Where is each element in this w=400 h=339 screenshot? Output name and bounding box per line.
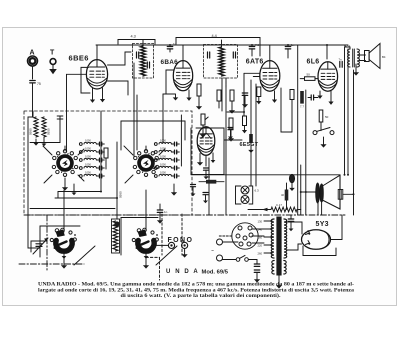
svg-text:6BE6: 6BE6: [69, 54, 89, 63]
band switch enclosure: [24, 111, 192, 215]
power transformer T3 core: [276, 217, 281, 276]
ground below C6b: [143, 258, 149, 269]
label FONO: [168, 237, 194, 244]
ground below S2: [320, 137, 326, 148]
tone switch S2: [313, 128, 334, 135]
svg-text:7.7: 7.7: [300, 105, 304, 109]
wire V1 grid to switch: [67, 74, 87, 152]
svg-text:50: 50: [307, 73, 311, 77]
antenna terminal A: [28, 50, 38, 80]
svg-text:6AT6: 6AT6: [246, 58, 264, 65]
mains switch S3: [223, 255, 258, 261]
wire speaker drop pair: [345, 47, 349, 175]
trimmer bank 2: [172, 142, 179, 178]
capacitor C16 electrolytic: [289, 174, 295, 191]
fono jack J2: [182, 242, 188, 251]
svg-text:130: 130: [258, 219, 263, 223]
box around S1b: [121, 121, 185, 150]
rectifier tube V6 5Y3: [302, 221, 331, 249]
svg-text:1000: 1000: [85, 163, 91, 167]
svg-text:T: T: [50, 50, 55, 57]
resistor R10 divider: [248, 203, 301, 212]
resistor R12: [281, 183, 288, 210]
tube V2 6BA6: [161, 59, 193, 91]
wire S1b contacts: [124, 146, 165, 183]
wire bank1 bottom: [72, 132, 101, 195]
speaker LS1: [365, 44, 386, 69]
resistor R16 dark: [300, 91, 304, 109]
antenna coils L1a L1b: [29, 117, 51, 137]
chassis line: [24, 214, 345, 216]
capacitor C4 rail: [285, 43, 294, 58]
band switch S1b: [133, 150, 159, 177]
IF T1 bracket 4.3: [118, 35, 155, 45]
wire bus y208: [30, 208, 115, 210]
wire V2 grid loop: [166, 70, 176, 94]
IF transformer T1 windings: [134, 40, 150, 78]
wire lamp bracket: [236, 186, 260, 204]
field coil: [316, 183, 324, 203]
ground below C6a: [61, 258, 67, 269]
coil bank L7-L11: [154, 139, 174, 178]
wire gang risers: [64, 190, 146, 232]
capacitor C18: [203, 193, 208, 204]
earth terminal T: [49, 50, 57, 75]
tuning gang C6b: [132, 228, 158, 259]
capacitor C2 rail: [167, 42, 176, 52]
svg-text:Mod. 69/5: Mod. 69/5: [202, 270, 229, 276]
capacitor C10 tone: [319, 110, 328, 131]
gang link diagonals: [74, 246, 177, 265]
box around tuning eye: [191, 128, 224, 175]
wire 6L6 plate top: [326, 45, 328, 59]
mains plug: [211, 239, 238, 261]
svg-text:1000: 1000: [160, 163, 166, 167]
wire field coil leads: [318, 202, 322, 215]
svg-text:1000: 1000: [85, 155, 91, 159]
output transformer T4: [345, 44, 359, 67]
wire speaker top bus: [191, 174, 349, 176]
wire output verticals: [298, 45, 307, 215]
svg-text:1000: 1000: [85, 171, 91, 175]
chassis dashed tail: [146, 257, 160, 280]
tube V1 6BE6: [69, 54, 108, 90]
box around gang C6b: [121, 218, 158, 256]
svg-text:50: 50: [325, 115, 329, 119]
svg-text:di uscita 6 watt. (V. a parte: di uscita 6 watt. (V. a parte la tabella…: [121, 292, 282, 299]
capacitor C15: [228, 128, 233, 140]
wire V3 plate drop: [281, 88, 292, 132]
svg-text:1n: 1n: [291, 43, 295, 47]
capacitor C19 at 6L6 plate: [339, 58, 343, 68]
wire grid drops: [101, 78, 166, 157]
capacitor C3 rail: [249, 43, 259, 56]
transformer taps: [258, 219, 273, 255]
resistor R15 cathode 6AT6: [256, 87, 261, 104]
wire bus y191: [58, 191, 102, 199]
IF transformer T2 can: [204, 45, 238, 79]
capacitor C5: [157, 204, 168, 224]
svg-text:0550: 0550: [47, 128, 51, 135]
svg-text:4.3: 4.3: [131, 35, 136, 39]
svg-text:160: 160: [258, 235, 263, 239]
resistor R8: [290, 90, 294, 133]
rectifier socket: [218, 223, 264, 249]
resistor R7 coupling: [300, 73, 318, 81]
tuning gang C6a: [50, 228, 76, 259]
wire S1a contacts: [43, 146, 84, 183]
label UNDA Mod 69/5: [166, 269, 229, 276]
wire plate to OT: [327, 45, 366, 61]
capacitor C13 at eye: [204, 168, 209, 179]
pilot lamp LP2: [241, 196, 249, 204]
band switch S1a: [52, 150, 78, 177]
capacitor C8: [242, 93, 248, 108]
capacitor C17: [191, 185, 196, 197]
tube V4 6L6: [307, 58, 338, 91]
wire V1 leads: [90, 45, 105, 103]
resistor R13 dark: [199, 175, 224, 184]
wire V3 grid left: [244, 73, 260, 116]
svg-text:1000: 1000: [160, 147, 166, 151]
wire bus y198: [55, 197, 118, 199]
svg-text:7n: 7n: [339, 58, 343, 62]
wire psu vertical: [300, 165, 316, 215]
chassis dash-dot left tail: [19, 215, 84, 270]
wire V3 leads: [270, 45, 277, 103]
ground below coil bank 2: [171, 184, 177, 196]
tube V3 6AT6: [246, 58, 280, 91]
ground below J2: [182, 251, 188, 258]
wire transformer to 5Y3: [287, 215, 343, 250]
ground below S1a: [62, 178, 68, 191]
wire detector drops: [209, 78, 256, 215]
IF T2 bracket 4.4: [176, 34, 260, 56]
wire psu bottom: [276, 275, 282, 289]
IF transformer T1 can: [133, 44, 154, 79]
svg-text:U N D A: U N D A: [166, 269, 199, 275]
svg-text:B4: B4: [382, 55, 386, 59]
wire V1 to IFT1: [108, 52, 132, 95]
svg-text:1000: 1000: [85, 147, 91, 151]
trimmer bank 1: [97, 142, 104, 178]
wire V2 leads: [183, 45, 192, 101]
svg-text:6.3: 6.3: [255, 189, 260, 193]
capacitor C12: [288, 215, 294, 231]
wire eye to R11: [181, 115, 242, 166]
ground below antenna coils: [33, 137, 47, 146]
resistor R5 volume: [200, 114, 208, 138]
ground below OT: [353, 64, 359, 76]
tube V5 6E5GT tuning eye: [197, 127, 259, 156]
svg-text:FONO: FONO: [168, 237, 194, 244]
wire V4 leads: [317, 91, 333, 105]
wire voice coil to OT: [343, 70, 355, 215]
ground below V5: [197, 159, 215, 166]
svg-text:0580: 0580: [119, 191, 123, 198]
svg-text:220: 220: [258, 243, 263, 247]
svg-text:6L6: 6L6: [307, 58, 320, 65]
wire left return: [28, 117, 40, 248]
svg-text:7.5: 7.5: [255, 43, 260, 47]
trimmer C14: [57, 116, 63, 143]
svg-text:40: 40: [281, 193, 284, 197]
resistor R11: [248, 134, 254, 153]
speaker cone: [323, 175, 340, 209]
svg-text:50: 50: [207, 175, 210, 179]
caption text: [38, 282, 355, 300]
resistor R4: [229, 90, 235, 114]
svg-text:1000: 1000: [160, 155, 166, 159]
svg-text:75: 75: [37, 82, 41, 86]
wire antenna bus: [30, 111, 60, 143]
resistor R3: [217, 90, 221, 108]
svg-text:1000: 1000: [160, 171, 166, 175]
voice coil: [338, 190, 343, 200]
wire detector link: [227, 111, 245, 113]
svg-text:1n: 1n: [164, 210, 168, 214]
svg-text:1000: 1000: [85, 139, 91, 143]
fono jack J1: [157, 242, 175, 248]
wire 5Y3 loop: [303, 246, 336, 256]
resistor R14: [242, 116, 247, 133]
power transformer T3 secondary: [284, 219, 287, 258]
IF transformer T2 windings: [208, 40, 236, 76]
svg-text:260: 260: [258, 251, 263, 255]
pilot lamp LP1: [241, 186, 249, 194]
svg-text:1n: 1n: [173, 42, 177, 46]
wire V1 grid loop: [81, 67, 90, 93]
oscillator coil L12: [112, 142, 123, 253]
ground below V2 loop: [173, 95, 179, 101]
wire V5 leads: [200, 153, 213, 166]
svg-text:~: ~: [211, 249, 214, 255]
wire AVC top rail: [96, 44, 348, 46]
power transformer T3 primary: [271, 219, 274, 258]
capacitor C9 cathode: [308, 95, 318, 100]
resistor R1: [104, 148, 108, 169]
power transformer T3 filament: [272, 261, 286, 275]
trimmer C7: [31, 238, 48, 254]
capacitor C11 filter: [254, 260, 260, 283]
svg-text:0580: 0580: [29, 128, 33, 135]
svg-text:C.17: C.17: [276, 203, 282, 207]
svg-text:5Y3: 5Y3: [316, 221, 329, 228]
svg-text:140: 140: [258, 227, 263, 231]
resistor R2: [196, 84, 202, 110]
coil bank L2-L6: [79, 139, 99, 178]
capacitor C1 antenna series: [30, 81, 41, 118]
svg-text:6BA6: 6BA6: [161, 59, 179, 66]
resistor R6: [228, 118, 234, 142]
dashed verticals: [162, 214, 182, 255]
box around gang C6a: [40, 226, 80, 257]
